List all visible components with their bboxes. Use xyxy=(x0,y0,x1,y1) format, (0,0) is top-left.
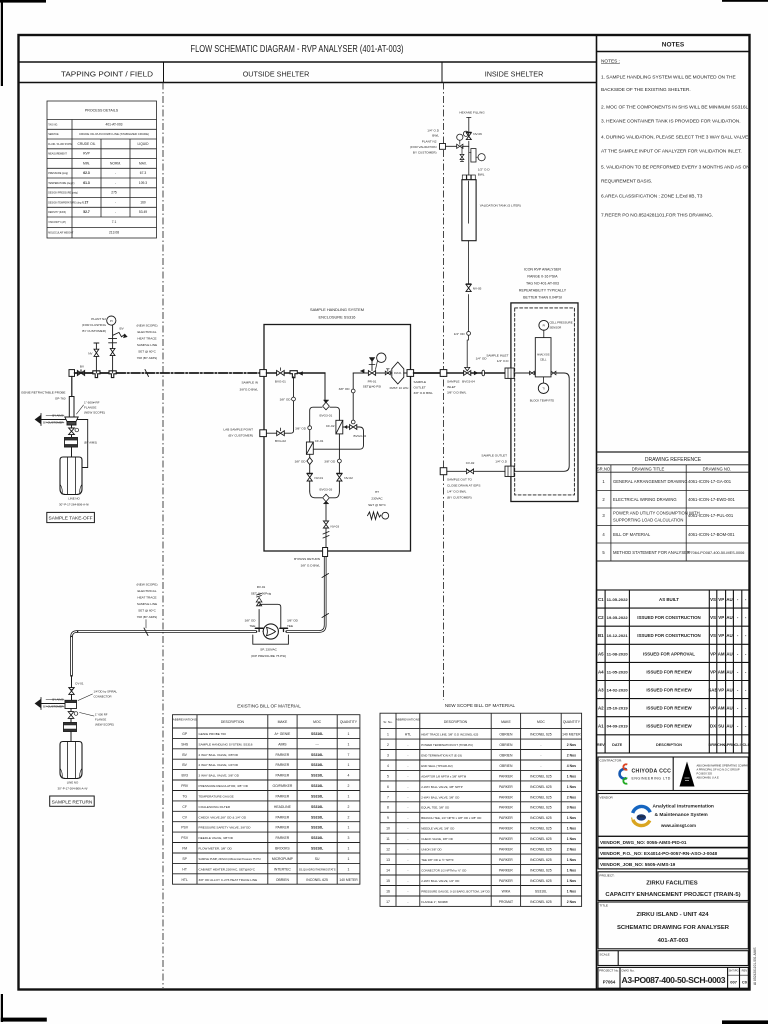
svg-text:14-02-2020: 14-02-2020 xyxy=(607,688,629,693)
svg-text:CRUDE OIL: CRUDE OIL xyxy=(78,142,96,146)
svg-text:3: 3 xyxy=(387,753,389,757)
svg-text:1. SAMPLE HANDLING SYSTEM WIL: 1. SAMPLE HANDLING SYSTEM WILL BE MOUNTE… xyxy=(601,75,736,81)
svg-text:CF: CF xyxy=(182,805,187,809)
svg-text:ZIRKU FACILITIES: ZIRKU FACILITIES xyxy=(646,881,697,887)
svg-text:1: 1 xyxy=(348,867,350,871)
svg-text:SAMPLE: SAMPLE xyxy=(414,380,427,384)
svg-text:CV-01: CV-01 xyxy=(75,682,84,686)
svg-text:INCONEL 625: INCONEL 625 xyxy=(530,827,552,831)
svg-text:(FOR FLUSHING: (FOR FLUSHING xyxy=(82,323,107,327)
svg-text:OUTLET: OUTLET xyxy=(414,386,426,390)
svg-text:53.49: 53.49 xyxy=(139,210,147,214)
svg-text:401-AT-003: 401-AT-003 xyxy=(658,938,689,944)
svg-text:SET @ 60°C: SET @ 60°C xyxy=(138,350,156,354)
svg-text:CRUDE OIL RUN DOWN LINE (STABI: CRUDE OIL RUN DOWN LINE (STABILIZED CRUD… xyxy=(79,132,149,136)
svg-text:SET@40 PSI: SET@40 PSI xyxy=(363,385,382,389)
svg-text:Sr. No.: Sr. No. xyxy=(383,720,392,724)
svg-text:NEW SCOPE BILL OF MATERIAL: NEW SCOPE BILL OF MATERIAL xyxy=(445,703,516,708)
svg-text:SP, 230VAC: SP, 230VAC xyxy=(260,648,278,652)
svg-text:INLET: INLET xyxy=(447,385,456,389)
svg-text:HEXANE FILLING: HEXANE FILLING xyxy=(459,111,485,115)
svg-text:MEASUREMENT: MEASUREMENT xyxy=(48,153,67,156)
svg-text:VP: VP xyxy=(718,633,724,638)
svg-text:PARKER: PARKER xyxy=(499,837,513,841)
svg-text:1 Nos: 1 Nos xyxy=(567,816,576,820)
svg-text:A+ GENIE: A+ GENIE xyxy=(275,732,291,736)
svg-text:C2: C2 xyxy=(598,615,604,620)
svg-text:AU: AU xyxy=(726,633,732,638)
svg-text:DESIGN PRESSURE (psig): DESIGN PRESSURE (psig) xyxy=(48,192,78,195)
svg-text:PI: PI xyxy=(110,319,113,323)
svg-text:TG: TG xyxy=(182,795,187,799)
svg-text:INCONEL 625: INCONEL 625 xyxy=(530,868,552,872)
svg-text:SAMPLE LINE: SAMPLE LINE xyxy=(137,343,157,347)
svg-text:BVG3-03: BVG3-03 xyxy=(320,488,333,492)
svg-text:MICROPUMP: MICROPUMP xyxy=(272,857,294,861)
svg-text:-: - xyxy=(407,743,408,747)
svg-text:NV-06: NV-06 xyxy=(473,132,482,136)
svg-text:1 Nos: 1 Nos xyxy=(567,889,576,893)
svg-text:PRESSURE GAUGE, 0-10 BARG, BOT: PRESSURE GAUGE, 0-10 BARG, BOTTOM, 1/4"O… xyxy=(421,889,489,893)
svg-text:DRAWING NO.: DRAWING NO. xyxy=(703,467,732,472)
svg-text:PROCESS DETAILS: PROCESS DETAILS xyxy=(85,109,119,113)
svg-text:11-05-2020: 11-05-2020 xyxy=(607,669,629,674)
svg-text:SENSOR: SENSOR xyxy=(550,326,562,330)
svg-text:TAG NO.: TAG NO. xyxy=(48,124,58,127)
svg-text:04-09-2019: 04-09-2019 xyxy=(607,724,629,729)
svg-text:PARKER: PARKER xyxy=(276,826,290,830)
svg-text:VENDOR_JOB_NO: 5505-AIMS-19: VENDOR_JOB_NO: 5505-AIMS-19 xyxy=(600,862,676,867)
svg-text:VP: VP xyxy=(718,688,724,693)
svg-text:FLANGE 1", 600#RF: FLANGE 1", 600#RF xyxy=(421,900,448,904)
svg-text:A4: A4 xyxy=(598,669,604,674)
svg-text:HT: HT xyxy=(375,490,379,494)
svg-text:TAPPING POINT / FIELD: TAPPING POINT / FIELD xyxy=(61,70,153,79)
svg-text:FLUID / FLUID STATE: FLUID / FLUID STATE xyxy=(48,143,72,146)
svg-text:(BY CUSTOMER): (BY CUSTOMER) xyxy=(447,496,472,500)
svg-text:5. VALIDATION TO BE PERFORMED: 5. VALIDATION TO BE PERFORMED EVERY 3 MO… xyxy=(601,165,750,171)
svg-text:VENDOR_P.O._NO: EX4014-PO-0057: VENDOR_P.O._NO: EX4014-PO-0057-RN-ASO-J-… xyxy=(600,851,718,856)
svg-text:1/4" O.D: 1/4" O.D xyxy=(495,460,508,464)
svg-text:VENDOR: VENDOR xyxy=(600,796,614,800)
svg-text:CHECK VALVE, 3/8" OD: CHECK VALVE, 3/8" OD xyxy=(421,837,453,841)
svg-text:NV-05: NV-05 xyxy=(473,287,482,291)
svg-text:HTL: HTL xyxy=(181,878,188,882)
svg-text:PRV: PRV xyxy=(181,784,189,788)
svg-text:AS BUILT: AS BUILT xyxy=(659,597,679,602)
svg-text:109.3: 109.3 xyxy=(139,181,147,185)
svg-text:BROOKS: BROOKS xyxy=(275,847,290,851)
svg-text:AIMS: AIMS xyxy=(278,742,287,746)
svg-text:END TERMINATION KIT (E-19): END TERMINATION KIT (E-19) xyxy=(421,753,462,757)
svg-text:PRESSURE REGULATOR, 3/8" OD: PRESSURE REGULATOR, 3/8" OD xyxy=(199,784,249,788)
svg-text:HEAT TRACE: HEAT TRACE xyxy=(137,337,156,341)
svg-text:P.O.BOX 303: P.O.BOX 303 xyxy=(697,772,713,776)
svg-text:CHECK VALVE,3/8" OD & 1/4" OD: CHECK VALVE,3/8" OD & 1/4" OD xyxy=(199,815,247,819)
svg-text:POWER TERMINATION KIT (TKSB-PC: POWER TERMINATION KIT (TKSB-PC) xyxy=(421,743,473,747)
svg-text:SET @ 90Psig: SET @ 90Psig xyxy=(251,592,272,596)
svg-text:A3: A3 xyxy=(598,688,604,693)
svg-text:SU: SU xyxy=(718,724,724,729)
svg-text:PROJECT No.: PROJECT No. xyxy=(599,969,619,973)
svg-text:ISSUED FOR CONSTRUCTION: ISSUED FOR CONSTRUCTION xyxy=(637,615,700,620)
svg-text:GO/PARKER: GO/PARKER xyxy=(272,784,292,788)
svg-text:LINE NO: LINE NO xyxy=(67,781,79,785)
svg-text:PARKER: PARKER xyxy=(276,753,290,757)
svg-text:SS316L: SS316L xyxy=(311,774,323,778)
svg-text:BWL: BWL xyxy=(432,134,439,138)
svg-text:NEEDLE VALVE, 3/8"OD: NEEDLE VALVE, 3/8"OD xyxy=(199,836,234,840)
svg-text:VP: VP xyxy=(710,706,716,711)
svg-text:SS,QUADRO/THERMOSTATS: SS,QUADRO/THERMOSTATS xyxy=(299,867,336,871)
svg-text:SHT/PG: SHT/PG xyxy=(729,968,739,972)
svg-text:2: 2 xyxy=(348,784,350,788)
svg-text:-: - xyxy=(407,795,408,799)
svg-text:AU: AU xyxy=(726,615,732,620)
svg-text:30"-P-17-264-B06-A-N/: 30"-P-17-264-B06-A-N/ xyxy=(58,787,88,791)
svg-text:FLANGE: FLANGE xyxy=(84,406,96,410)
svg-text:ANALYSIS: ANALYSIS xyxy=(537,353,550,357)
svg-text:ISSUED FOR REVIEW: ISSUED FOR REVIEW xyxy=(646,706,692,711)
svg-text:HTL: HTL xyxy=(405,733,412,737)
svg-text:A2: A2 xyxy=(598,706,604,711)
svg-text:11: 11 xyxy=(386,837,390,841)
svg-text:1 Nos: 1 Nos xyxy=(567,858,576,862)
svg-text:1/4" O.D: 1/4" O.D xyxy=(427,129,440,133)
svg-text:POWER AND UTILITY CONSUMPTION: POWER AND UTILITY CONSUMPTION WITH xyxy=(613,511,700,516)
svg-text:RV-01: RV-01 xyxy=(257,585,266,589)
svg-text:3/8" O.D BWL: 3/8" O.D BWL xyxy=(414,391,434,395)
svg-text:4: 4 xyxy=(387,764,389,768)
svg-text:---: --- xyxy=(315,742,318,746)
svg-text:SUPPORTING LOAD CALCULATION: SUPPORTING LOAD CALCULATION xyxy=(613,518,683,523)
svg-text:FMST: 10 LPH: FMST: 10 LPH xyxy=(390,386,409,390)
svg-text:-: - xyxy=(407,816,408,820)
svg-text:OBRIEN: OBRIEN xyxy=(499,733,513,737)
svg-text:AM: AM xyxy=(718,651,725,656)
svg-text:(NEW SCOPE): (NEW SCOPE) xyxy=(84,411,105,415)
svg-text:FLOW METER, 3/8" OD: FLOW METER, 3/8" OD xyxy=(199,847,233,851)
svg-text:3 WAY BALL VALVE, 3/8" OD: 3 WAY BALL VALVE, 3/8" OD xyxy=(199,774,240,778)
svg-text:1: 1 xyxy=(348,795,350,799)
svg-text:ABU DHABI, U.A.E: ABU DHABI, U.A.E xyxy=(697,776,719,780)
svg-text:3/8" OD ALLOY C-276 HEAT TRACE: 3/8" OD ALLOY C-276 HEAT TRACE LINE xyxy=(199,878,258,882)
svg-text:708 (BY AIMS): 708 (BY AIMS) xyxy=(137,615,157,619)
svg-text:4061-ICON-17-PUL-001: 4061-ICON-17-PUL-001 xyxy=(688,513,734,518)
svg-text:REV: REV xyxy=(597,743,605,747)
svg-text:PROMAT: PROMAT xyxy=(499,900,513,904)
svg-text:140 METER: 140 METER xyxy=(562,733,581,737)
svg-text:VP: VP xyxy=(710,669,716,674)
svg-text:4 Nos: 4 Nos xyxy=(567,764,576,768)
svg-text:GP-760: GP-760 xyxy=(55,397,66,401)
svg-text:BV: BV xyxy=(182,763,187,767)
svg-text:PARKER: PARKER xyxy=(499,868,513,872)
svg-text:4061-ICON-17-BOM-001: 4061-ICON-17-BOM-001 xyxy=(688,532,735,537)
svg-text:-: - xyxy=(407,827,408,831)
svg-text:ENGINEERING LTD: ENGINEERING LTD xyxy=(632,777,671,781)
svg-text:ISSUED FOR CONSTRUCTION: ISSUED FOR CONSTRUCTION xyxy=(637,633,700,638)
svg-text:MIN.: MIN. xyxy=(83,161,90,165)
svg-text:CAPACITY ENHANCEMENT PROJECT (: CAPACITY ENHANCEMENT PROJECT (TRAIN-5) xyxy=(605,892,740,898)
svg-text:SS316L: SS316L xyxy=(311,732,323,736)
svg-text:ISSUED FOR REVIEW: ISSUED FOR REVIEW xyxy=(646,724,692,729)
svg-text:ISSUED FOR REVIEW: ISSUED FOR REVIEW xyxy=(646,669,692,674)
svg-text:BVG-01: BVG-01 xyxy=(275,380,286,384)
svg-text:1 Nos: 1 Nos xyxy=(567,827,576,831)
svg-text:PARKER: PARKER xyxy=(499,806,513,810)
svg-text:MOC: MOC xyxy=(313,720,321,724)
svg-text:ISSUED FOR REVIEW: ISSUED FOR REVIEW xyxy=(646,688,692,693)
svg-text:INSIDE SHELTER: INSIDE SHELTER xyxy=(485,70,544,79)
svg-text:TEE: TEE xyxy=(287,624,293,628)
svg-text:-: - xyxy=(115,171,116,175)
svg-text:SS316L: SS316L xyxy=(535,889,547,893)
svg-text:DX: DX xyxy=(710,724,716,729)
svg-text:-: - xyxy=(407,900,408,904)
svg-text:PARKER: PARKER xyxy=(276,763,290,767)
svg-text:7.1: 7.1 xyxy=(112,220,117,224)
svg-text:SU: SU xyxy=(315,857,320,861)
svg-text:1: 1 xyxy=(348,763,350,767)
svg-text:3/8" OD: 3/8" OD xyxy=(287,619,299,623)
svg-text:PR-01: PR-01 xyxy=(368,380,377,384)
svg-text:AU: AU xyxy=(726,651,732,656)
svg-text:(NEW SCOPE): (NEW SCOPE) xyxy=(137,583,158,587)
svg-text:2 Nos: 2 Nos xyxy=(567,753,576,757)
svg-text:OBRIEN: OBRIEN xyxy=(499,764,513,768)
svg-text:INCONEL 625: INCONEL 625 xyxy=(530,837,552,841)
svg-text:15: 15 xyxy=(386,879,390,883)
svg-text:AU: AU xyxy=(726,669,732,674)
svg-text:REQUIREMENT BASIS.: REQUIREMENT BASIS. xyxy=(601,179,652,185)
svg-text:1: 1 xyxy=(348,826,350,830)
svg-text:TEE 3/8" OD to ½" NPTF: TEE 3/8" OD to ½" NPTF xyxy=(421,858,454,862)
svg-text:VS: VS xyxy=(710,615,716,620)
svg-text:HEAT TRACE: HEAT TRACE xyxy=(137,596,156,600)
svg-text:3/8" OD: 3/8" OD xyxy=(295,460,307,464)
svg-text:INCONEL 625: INCONEL 625 xyxy=(530,900,552,904)
svg-text:INCONEL 625: INCONEL 625 xyxy=(530,879,552,883)
svg-text:P7064-PO087-400-50-MES-0006: P7064-PO087-400-50-MES-0006 xyxy=(688,551,744,555)
svg-text:AI 8524281101-001 AIMS: AI 8524281101-001 AIMS xyxy=(753,947,757,985)
svg-text:213.08: 213.08 xyxy=(109,231,119,235)
svg-text:BY CUSTOMER): BY CUSTOMER) xyxy=(413,151,437,155)
svg-text:CELL PRESSURE: CELL PRESSURE xyxy=(550,321,573,325)
svg-text:LAB SAMPLE POINT: LAB SAMPLE POINT xyxy=(223,428,253,432)
svg-text:7: 7 xyxy=(387,795,389,799)
svg-text:A PRINCIPAL OF A.D.N.O.C GROUP: A PRINCIPAL OF A.D.N.O.C GROUP xyxy=(697,768,740,772)
svg-text:Analytical Instrumentation: Analytical Instrumentation xyxy=(653,804,714,810)
svg-text:1: 1 xyxy=(348,742,350,746)
svg-text:INCONEL 625: INCONEL 625 xyxy=(530,806,552,810)
svg-text:AM: AM xyxy=(718,706,725,711)
svg-text:SS316L: SS316L xyxy=(311,763,323,767)
svg-text:DATE: DATE xyxy=(612,743,623,747)
svg-text:4. DURING VALIDATION, PLEASE S: 4. DURING VALIDATION, PLEASE SELECT THE … xyxy=(601,135,748,141)
svg-text:VALIDATION TANK (5 LITER): VALIDATION TANK (5 LITER) xyxy=(480,203,521,207)
svg-text:AT THE SAMPLE INPUT OF ANALYZE: AT THE SAMPLE INPUT OF ANALYZER FOR VALI… xyxy=(601,149,742,155)
svg-text:BV3: BV3 xyxy=(181,774,188,778)
svg-text:SAMPLE RETURN: SAMPLE RETURN xyxy=(52,799,93,805)
svg-text:BYPASS RETURN: BYPASS RETURN xyxy=(294,557,320,561)
svg-text:-: - xyxy=(407,753,408,757)
svg-text:COALESCING FILTER: COALESCING FILTER xyxy=(199,805,231,809)
svg-text:-: - xyxy=(407,868,408,872)
svg-text:PLANT N2: PLANT N2 xyxy=(422,140,437,144)
svg-text:MAKE: MAKE xyxy=(501,720,511,724)
svg-text:APRD: APRD xyxy=(724,743,735,747)
svg-text:2 WAY BALL VALVE, 3/8"OD: 2 WAY BALL VALVE, 3/8"OD xyxy=(199,753,239,757)
svg-text:SERVICE: SERVICE xyxy=(48,133,59,136)
svg-text:METHOD STATEMENT FOR ANALYSER: METHOD STATEMENT FOR ANALYSER xyxy=(613,550,690,555)
svg-text:1" 600# RF: 1" 600# RF xyxy=(84,401,100,405)
svg-text:RANGE 0-16 PSIA: RANGE 0-16 PSIA xyxy=(527,275,558,279)
svg-text:www.aimsgt.com: www.aimsgt.com xyxy=(660,823,696,828)
svg-text:2 Nos: 2 Nos xyxy=(567,743,576,747)
svg-text:FM: FM xyxy=(182,847,187,851)
svg-text:SS316L: SS316L xyxy=(311,753,323,757)
svg-text:1: 1 xyxy=(348,732,350,736)
svg-text:3: 3 xyxy=(348,836,350,840)
svg-text:PARKER: PARKER xyxy=(276,795,290,799)
svg-text:14: 14 xyxy=(386,868,390,872)
svg-text:INCONEL 625: INCONEL 625 xyxy=(306,878,328,882)
svg-text:CONNECTOR 1/2 NPTM to ½" OD: CONNECTOR 1/2 NPTM to ½" OD xyxy=(421,868,466,872)
svg-text:OUTSIDE SHELTER: OUTSIDE SHELTER xyxy=(243,70,310,79)
svg-text:NV-01: NV-01 xyxy=(315,476,324,480)
svg-text:SS316L: SS316L xyxy=(311,795,323,799)
svg-text:VP: VP xyxy=(710,651,716,656)
svg-text:ZIRKU ISLAND - UNIT 424: ZIRKU ISLAND - UNIT 424 xyxy=(636,912,709,918)
svg-text:NV-03: NV-03 xyxy=(331,525,340,529)
svg-text:SCALE: SCALE xyxy=(600,953,610,957)
svg-text:MOLECULAR WEIGHT: MOLECULAR WEIGHT xyxy=(48,232,74,235)
svg-text:INCONEL 625: INCONEL 625 xyxy=(530,733,552,737)
svg-text:2 Nos: 2 Nos xyxy=(567,848,576,852)
svg-text:CABINET HEATER,230VAC, SET@60°: CABINET HEATER,230VAC, SET@60°C xyxy=(199,867,256,871)
svg-text:(NEW SCOPE): (NEW SCOPE) xyxy=(95,723,114,727)
svg-text:FM-01: FM-01 xyxy=(394,371,402,375)
svg-text:275: 275 xyxy=(111,191,117,195)
svg-text:SS316L: SS316L xyxy=(311,805,323,809)
svg-text:PARKER: PARKER xyxy=(499,785,513,789)
svg-text:2-WAY BALL VALVE, 1/2" OD: 2-WAY BALL VALVE, 1/2" OD xyxy=(421,879,459,883)
svg-text:A3-PO087-400-50-SCH-0003: A3-PO087-400-50-SCH-0003 xyxy=(622,975,726,985)
svg-text:VS: VS xyxy=(710,597,716,602)
svg-text:PARKER: PARKER xyxy=(499,774,513,778)
svg-text:1: 1 xyxy=(348,847,350,851)
svg-text:3/8" OD: 3/8" OD xyxy=(324,460,336,464)
svg-text:12: 12 xyxy=(386,848,390,852)
svg-text:VENDOR_DWG_NO: 0055-AIMS-PID-0: VENDOR_DWG_NO: 0055-AIMS-PID-01 xyxy=(600,840,687,845)
svg-text:1: 1 xyxy=(348,857,350,861)
svg-text:SAMPLE HANDLING SYSTEM, SS316: SAMPLE HANDLING SYSTEM, SS316 xyxy=(199,742,253,746)
svg-text:1/2" O.D: 1/2" O.D xyxy=(478,168,491,172)
svg-text:4: 4 xyxy=(348,774,350,778)
svg-text:PARKER: PARKER xyxy=(499,848,513,852)
svg-text:52.7: 52.7 xyxy=(83,210,90,214)
svg-text:7: 7 xyxy=(348,753,350,757)
svg-text:SS316L: SS316L xyxy=(311,815,323,819)
svg-text:TI: TI xyxy=(542,387,545,391)
svg-text:PARKER: PARKER xyxy=(499,879,513,883)
svg-text:HEAT TRACE LINE, 3/8" O.D INCO: HEAT TRACE LINE, 3/8" O.D INCONEL 625 xyxy=(421,733,478,737)
svg-text:SCHEMATIC DRAWING FOR ANALYSER: SCHEMATIC DRAWING FOR ANALYSER xyxy=(617,925,730,931)
svg-text:MAKE: MAKE xyxy=(278,720,288,724)
svg-text:2: 2 xyxy=(348,805,350,809)
svg-text:61.3: 61.3 xyxy=(83,181,90,185)
svg-text:OBRIEN: OBRIEN xyxy=(499,753,513,757)
svg-text:CONNECTOR: CONNECTOR xyxy=(94,695,112,699)
svg-text:PARKER: PARKER xyxy=(276,836,290,840)
svg-text:11-08-2020: 11-08-2020 xyxy=(607,651,629,656)
svg-text:TAG NO 401-AT-003: TAG NO 401-AT-003 xyxy=(526,282,559,286)
svg-text:SR.NO: SR.NO xyxy=(597,467,611,472)
svg-text:PARKER: PARKER xyxy=(499,816,513,820)
svg-text:& Maintenance System: & Maintenance System xyxy=(655,812,709,818)
svg-text:PRESSURE SAFETY VALVE, 3/8"OD: PRESSURE SAFETY VALVE, 3/8"OD xyxy=(199,826,252,830)
svg-text:PROJECT:: PROJECT: xyxy=(600,874,615,878)
svg-text:DENSITY (lb/ft3): DENSITY (lb/ft3) xyxy=(48,211,66,214)
svg-text:30"-P-17-264-B06-A-N/: 30"-P-17-264-B06-A-N/ xyxy=(59,503,89,507)
svg-text:TITLE: TITLE xyxy=(600,904,608,908)
svg-text:401-AT-003: 401-AT-003 xyxy=(106,123,123,127)
svg-text:-: - xyxy=(540,743,541,747)
svg-text:(NEW SCOPE): (NEW SCOPE) xyxy=(137,324,158,328)
svg-text:INCONEL 625: INCONEL 625 xyxy=(530,795,552,799)
svg-text:MOC: MOC xyxy=(537,720,545,724)
svg-text:1 Nos: 1 Nos xyxy=(567,837,576,841)
svg-text:SAMPLE OUTLET: SAMPLE OUTLET xyxy=(481,454,507,458)
svg-text:C0: C0 xyxy=(742,980,748,985)
svg-text:WIKA: WIKA xyxy=(502,889,511,893)
svg-text:AU: AU xyxy=(726,706,732,711)
svg-text:DWG No.: DWG No. xyxy=(622,969,635,973)
svg-text:(FOR VALIDATION: (FOR VALIDATION xyxy=(410,145,436,149)
svg-text:CF-02: CF-02 xyxy=(326,424,335,428)
svg-text:4061-ICON-17-GA-001: 4061-ICON-17-GA-001 xyxy=(688,479,732,484)
svg-text:ENCLOSURE SS316: ENCLOSURE SS316 xyxy=(319,315,356,320)
svg-text:INCONEL 625: INCONEL 625 xyxy=(530,816,552,820)
svg-text:DESIGN TEMPERATURE (deg F): DESIGN TEMPERATURE (deg F) xyxy=(48,201,84,204)
svg-text:140 METER: 140 METER xyxy=(339,878,358,882)
svg-text:3/8" OD: 3/8" OD xyxy=(245,619,257,623)
svg-text:SAMPLE PUMP, 230VAC,Differenti: SAMPLE PUMP, 230VAC,Differential Pressur… xyxy=(199,857,261,861)
svg-text:PARKER: PARKER xyxy=(499,795,513,799)
svg-text:1 Nos: 1 Nos xyxy=(567,868,576,872)
svg-text:VP: VP xyxy=(718,597,724,602)
svg-text:2-WAY BALL VALVE, 3/8" OD: 2-WAY BALL VALVE, 3/8" OD xyxy=(421,795,459,799)
svg-text:3 Nos: 3 Nos xyxy=(567,806,576,810)
svg-text:BVG-02: BVG-02 xyxy=(275,439,286,443)
svg-text:AU: AU xyxy=(726,688,732,693)
svg-text:LIQUID: LIQUID xyxy=(138,142,150,146)
svg-text:1/4"OD by SPIRAL: 1/4"OD by SPIRAL xyxy=(94,690,118,694)
svg-text:GENIE PROBE 760: GENIE PROBE 760 xyxy=(199,732,227,736)
svg-text:2: 2 xyxy=(387,743,389,747)
svg-text:ISSUED FOR APPROVAL: ISSUED FOR APPROVAL xyxy=(643,651,695,656)
svg-text:BY CUSTOMER): BY CUSTOMER) xyxy=(82,329,106,333)
svg-text:SAMPLE HANDLING SYSTEM: SAMPLE HANDLING SYSTEM xyxy=(310,307,364,312)
svg-text:NOTES :: NOTES : xyxy=(601,59,620,65)
svg-text:4061-ICON-17-EWD-001: 4061-ICON-17-EWD-001 xyxy=(688,497,735,502)
svg-text:OBRIEN: OBRIEN xyxy=(499,743,513,747)
svg-text:3/8" OD: 3/8" OD xyxy=(280,398,292,402)
svg-text:7.REFER PO NO.8524281101,FOR T: 7.REFER PO NO.8524281101,FOR THIS DRAWIN… xyxy=(601,213,713,219)
svg-text:BWL: BWL xyxy=(478,173,485,177)
svg-text:CF-01: CF-01 xyxy=(315,439,324,443)
